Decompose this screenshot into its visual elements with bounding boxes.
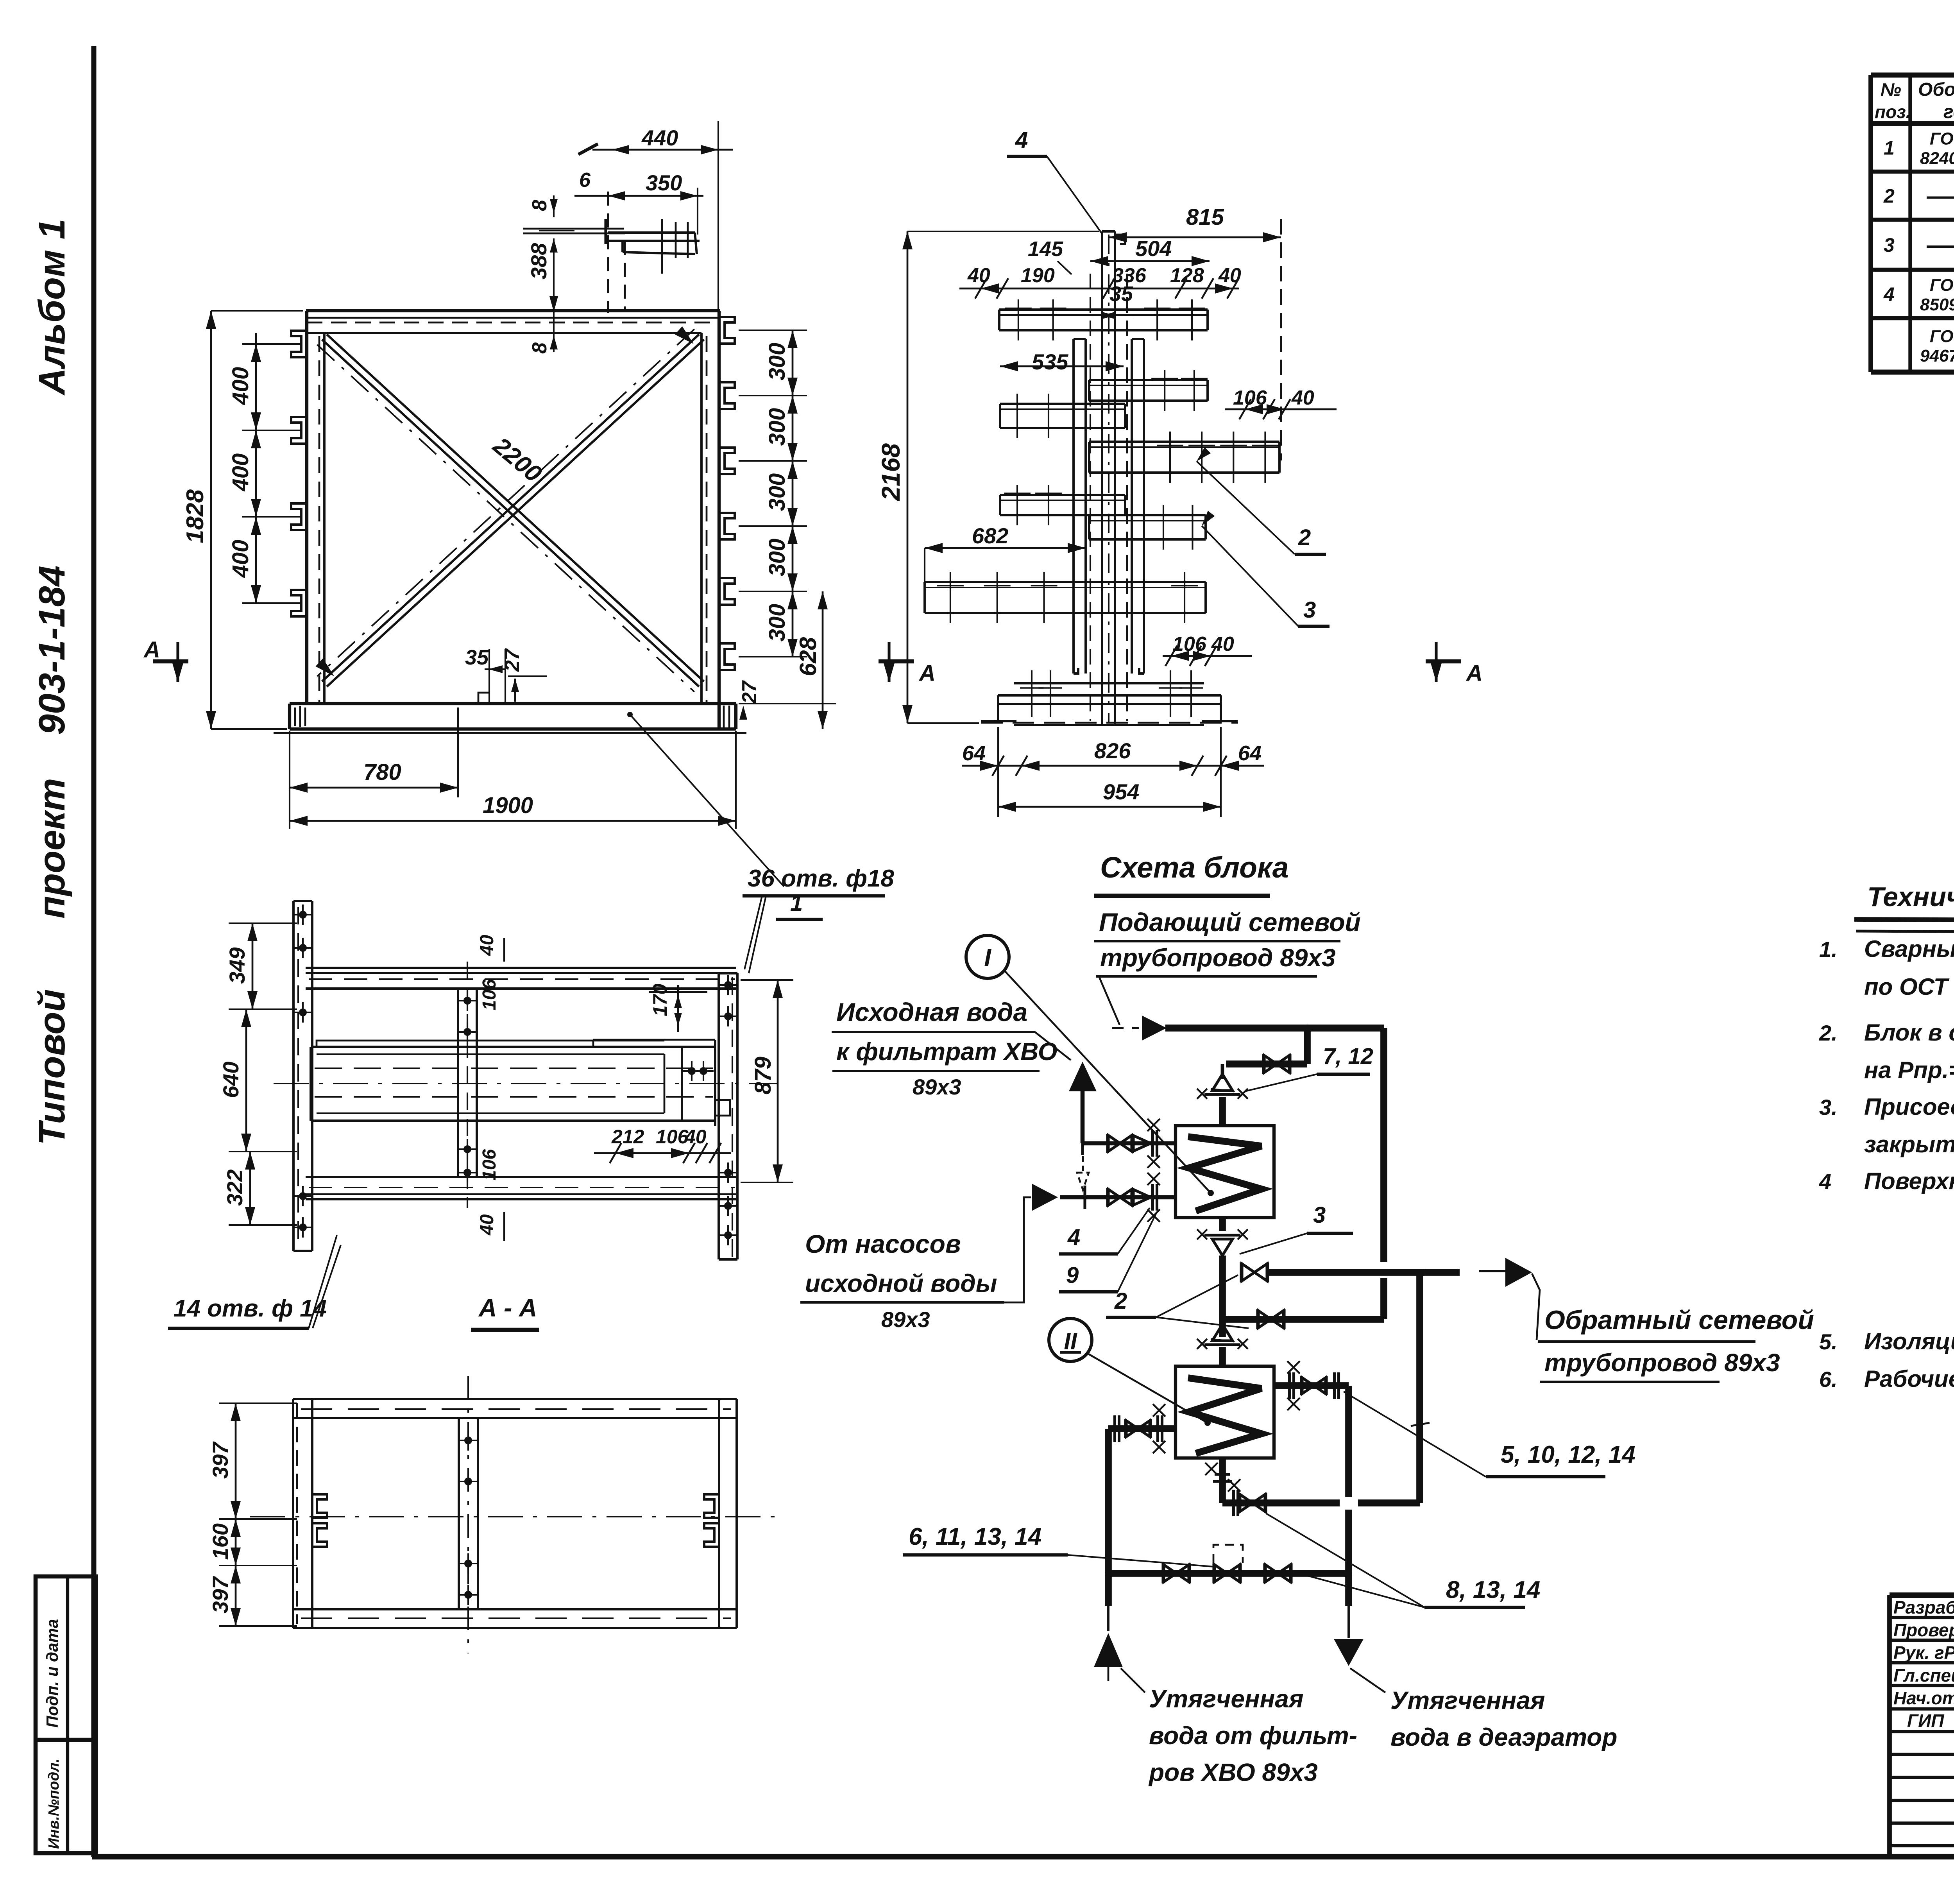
svg-text:504: 504 [1135,236,1172,261]
svg-text:400: 400 [228,540,253,578]
svg-text:гост: гост [1943,102,1954,122]
svg-text:145: 145 [1028,237,1063,261]
svg-text:300: 300 [764,604,790,642]
svg-text:Подп. и дата: Подп. и дата [43,1619,61,1728]
svg-text:40: 40 [684,1126,707,1148]
svg-text:682: 682 [972,523,1008,548]
svg-text:336: 336 [1112,264,1147,287]
svg-text:106: 106 [656,1126,689,1148]
svg-text:ров ХВО 89х3: ров ХВО 89х3 [1148,1758,1318,1786]
svg-text:7, 12: 7, 12 [1323,1044,1373,1069]
svg-text:640: 640 [218,1062,243,1098]
svg-text:27: 27 [501,648,524,672]
svg-text:Утягченная: Утягченная [1390,1686,1545,1714]
svg-text:Схета блока: Схета блока [1100,851,1289,884]
svg-text:9: 9 [1066,1263,1079,1288]
svg-text:3.: 3. [1819,1095,1838,1119]
svg-text:Поверхность узлов блока: Поверхность узлов блока покрыть краской: [1864,1168,1954,1194]
svg-text:А: А [1465,661,1483,686]
svg-text:628: 628 [795,637,821,676]
svg-text:27: 27 [738,680,761,704]
svg-text:903-1-184: 903-1-184 [31,566,73,735]
svg-text:106: 106 [1172,633,1207,656]
svg-text:8, 13, 14: 8, 13, 14 [1446,1576,1540,1603]
svg-text:трубопровод 89х3: трубопровод 89х3 [1544,1349,1780,1377]
svg-text:3: 3 [1303,597,1316,623]
svg-text:1828: 1828 [182,489,209,543]
svg-text:Инв.№подл.: Инв.№подл. [46,1759,62,1849]
svg-text:40: 40 [477,1214,497,1236]
svg-text:106: 106 [479,979,500,1010]
svg-text:40: 40 [1218,264,1241,287]
svg-text:исходной воды: исходной воды [805,1269,997,1297]
svg-text:Разраб.: Разраб. [1893,1597,1954,1617]
svg-text:5.: 5. [1819,1329,1838,1354]
svg-text:Провер.: Провер. [1893,1620,1954,1640]
svg-text:954: 954 [1103,779,1139,804]
svg-text:322: 322 [222,1170,247,1206]
svg-text:5, 10, 12, 14: 5, 10, 12, 14 [1501,1441,1635,1468]
svg-text:Нач.отд: Нач.отд [1893,1688,1954,1708]
svg-text:Альбом 1: Альбом 1 [31,219,73,396]
svg-text:поз.: поз. [1875,102,1911,122]
svg-text:Гл.спец.: Гл.спец. [1893,1665,1954,1685]
svg-text:8: 8 [528,342,551,354]
svg-text:14 отв. ф 14: 14 отв. ф 14 [174,1295,327,1322]
svg-text:300: 300 [764,343,790,381]
svg-text:вода в деаэратор: вода в деаэратор [1390,1723,1617,1751]
svg-text:А - А: А - А [478,1294,537,1322]
svg-text:160: 160 [208,1523,233,1560]
svg-text:2168: 2168 [876,443,905,502]
svg-text:проект: проект [31,778,73,919]
svg-text:300: 300 [764,539,790,577]
svg-text:3: 3 [1313,1202,1326,1228]
svg-text:64: 64 [1238,742,1262,765]
svg-text:440: 440 [641,125,678,150]
svg-text:8: 8 [528,200,551,211]
svg-text:по ОСТ 34. 202- 73.: по ОСТ 34. 202- 73. [1864,974,1954,1000]
svg-text:4: 4 [1067,1225,1080,1250]
svg-text:1.: 1. [1819,937,1838,962]
svg-text:879: 879 [750,1057,776,1094]
svg-text:Блок в сборе подвергну: Блок в сборе подвергнуть гидравлическому… [1864,1019,1954,1046]
svg-text:А: А [918,661,936,686]
svg-text:на Рпр.= 1.25 Рраб. прои: на Рпр.= 1.25 Рраб. произвести очистку и… [1864,1057,1954,1083]
svg-text:815: 815 [1186,204,1224,230]
svg-text:От насосов: От насосов [805,1229,961,1258]
svg-text:128: 128 [1170,264,1204,287]
svg-text:8240-72: 8240-72 [1920,149,1954,168]
svg-text:40: 40 [1211,633,1234,656]
svg-text:Технические требования на: Технические требования на изготовление б… [1867,881,1954,912]
svg-text:закрыть заглушкати из кро: закрыть заглушкати из кробельной стали. [1864,1131,1954,1157]
svg-text:397: 397 [208,1576,233,1613]
svg-text:Рабочие параметры: Р =: Рабочие параметры: Р = 4.5 кгс/см² , t =… [1864,1366,1954,1392]
svg-text:89х3: 89х3 [913,1075,961,1099]
svg-text:ГИП: ГИП [1907,1711,1944,1731]
svg-text:к фильтрат ХВО: к фильтрат ХВО [836,1037,1058,1066]
svg-text:349: 349 [225,948,249,984]
svg-text:Подающий сетевой: Подающий сетевой [1099,908,1361,937]
svg-text:8509-72: 8509-72 [1920,295,1954,314]
svg-text:Утягченная: Утягченная [1149,1685,1304,1713]
svg-text:36 отв. ф18: 36 отв. ф18 [748,865,894,892]
svg-text:40: 40 [477,935,497,956]
svg-text:300: 300 [764,408,790,446]
svg-text:190: 190 [1021,264,1055,287]
svg-text:535: 535 [1032,349,1068,374]
svg-text:1: 1 [1884,137,1895,159]
svg-text:Изоляцию блока пр: Изоляцию блока произвести на месте тонта… [1864,1328,1954,1354]
svg-text:40: 40 [1291,387,1314,409]
svg-text:2: 2 [1883,185,1895,207]
svg-text:Сварные стыковые со: Сварные стыковые соединения трубопроводо… [1864,936,1954,962]
svg-text:388: 388 [526,243,551,279]
svg-text:4: 4 [1015,127,1028,153]
svg-text:А: А [143,637,160,663]
svg-text:6: 6 [579,169,591,192]
svg-text:№: № [1881,79,1901,100]
svg-text:4: 4 [1883,283,1895,305]
svg-text:Присоединительные концы: Присоединительные концы трубопроводов пр… [1864,1094,1954,1120]
svg-text:397: 397 [208,1441,233,1479]
svg-text:ГОСТ: ГОСТ [1930,327,1954,346]
svg-text:4: 4 [1819,1169,1831,1194]
svg-text:300: 300 [764,473,790,511]
svg-text:ГОСТ: ГОСТ [1930,129,1954,149]
svg-text:212: 212 [611,1126,644,1148]
svg-text:1900: 1900 [483,793,533,818]
svg-text:трубопровод 89х3: трубопровод 89х3 [1100,944,1336,972]
svg-text:Типовой: Типовой [31,989,73,1145]
svg-text:40: 40 [967,264,990,287]
svg-text:400: 400 [228,453,253,492]
svg-text:350: 350 [646,170,682,195]
svg-text:6.: 6. [1819,1367,1838,1392]
svg-text:Обознач.: Обознач. [1918,79,1954,100]
svg-text:Рук. гР.: Рук. гР. [1893,1642,1954,1663]
svg-text:6, 11, 13, 14: 6, 11, 13, 14 [909,1523,1041,1550]
svg-text:2: 2 [1298,525,1311,550]
svg-text:780: 780 [363,759,401,785]
svg-text:II: II [1064,1328,1077,1354]
svg-text:9467-75: 9467-75 [1920,346,1954,365]
svg-text:89х3: 89х3 [881,1307,930,1332]
svg-text:2.: 2. [1819,1021,1838,1045]
svg-text:I: I [984,944,991,972]
svg-text:400: 400 [228,367,253,405]
svg-text:170: 170 [649,983,671,1016]
svg-text:Исходная вода: Исходная вода [836,998,1027,1026]
svg-text:106: 106 [479,1149,500,1180]
svg-text:35: 35 [465,646,489,669]
svg-text:1: 1 [790,890,803,916]
svg-text:ГОСТ: ГОСТ [1930,276,1954,295]
svg-text:вода от фильт-: вода от фильт- [1149,1721,1357,1750]
svg-text:Обратный сетевой: Обратный сетевой [1544,1305,1814,1335]
svg-text:826: 826 [1094,738,1131,763]
svg-text:3: 3 [1884,234,1895,256]
